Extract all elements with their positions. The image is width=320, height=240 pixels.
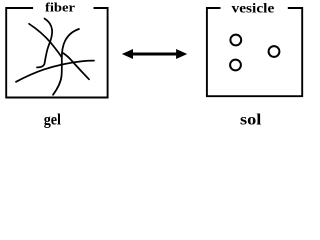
fiber strand E bbox=[53, 29, 79, 95]
fiber strand C bbox=[37, 19, 52, 68]
svg-text:sol: sol bbox=[240, 112, 262, 129]
fiber strand D bbox=[29, 24, 62, 57]
gel box (left container) bbox=[6, 8, 107, 98]
svg-text:gel: gel bbox=[44, 112, 62, 129]
svg-text:vesicle: vesicle bbox=[232, 0, 275, 15]
double-headed arrow bbox=[122, 49, 187, 59]
vesicle circle 3 bbox=[230, 60, 241, 71]
vesicle circle 2 bbox=[269, 46, 280, 57]
svg-text:fiber: fiber bbox=[45, 0, 75, 15]
sol box (right container) bbox=[207, 8, 302, 96]
fiber strand H bbox=[16, 61, 94, 82]
vesicle circle 1 bbox=[230, 35, 241, 46]
fiber strand G bbox=[63, 53, 89, 79]
